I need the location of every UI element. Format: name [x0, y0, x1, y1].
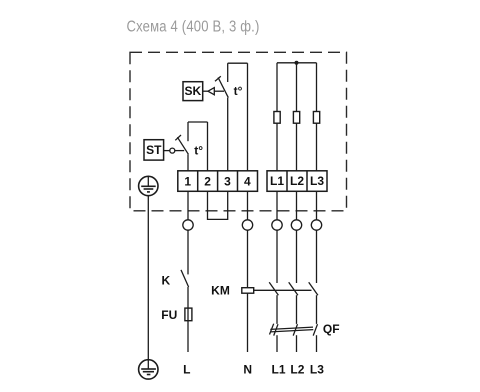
svg-text:Схема 4 (400 В, 3 ф.): Схема 4 (400 В, 3 ф.): [127, 19, 260, 36]
svg-text:L1: L1: [270, 174, 284, 188]
svg-text:4: 4: [244, 174, 251, 188]
svg-text:QF: QF: [323, 322, 340, 336]
svg-text:FU: FU: [161, 308, 177, 322]
svg-text:N: N: [243, 363, 252, 377]
svg-text:1: 1: [184, 174, 191, 188]
svg-text:L1: L1: [271, 363, 285, 377]
svg-text:L3: L3: [310, 174, 324, 188]
svg-text:L: L: [183, 363, 190, 377]
svg-text:2: 2: [204, 174, 211, 188]
svg-text:L3: L3: [310, 363, 324, 377]
svg-text:3: 3: [224, 174, 231, 188]
svg-text:L2: L2: [290, 363, 304, 377]
svg-text:KM: KM: [211, 283, 230, 297]
svg-text:ST: ST: [146, 143, 162, 157]
svg-text:K: K: [161, 273, 170, 287]
svg-text:t°: t°: [194, 143, 203, 157]
svg-text:L2: L2: [290, 174, 304, 188]
svg-text:t°: t°: [234, 84, 243, 98]
svg-text:SK: SK: [184, 84, 201, 98]
